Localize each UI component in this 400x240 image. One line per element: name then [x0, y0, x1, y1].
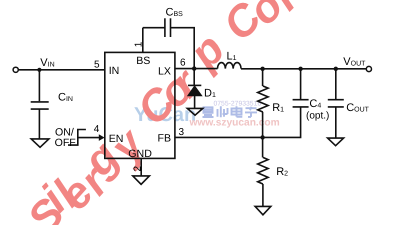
node R1 top junction	[260, 67, 264, 71]
terminal VOUT circle	[366, 66, 371, 71]
ground GND pin	[133, 176, 150, 184]
svg-text:D1: D1	[204, 88, 216, 100]
wire output rail	[241, 68, 366, 70]
wire EN arrow line	[78, 137, 100, 139]
watermark blue chinese characters	[203, 106, 258, 117]
capacitor COUT	[328, 99, 344, 101]
svg-text:VOUT: VOUT	[343, 56, 366, 68]
node FB junction	[260, 135, 264, 139]
ground CIN	[31, 139, 49, 147]
watermark red Silergy Corp	[18, 0, 310, 240]
ground COUT	[328, 138, 344, 146]
watermark phone number	[214, 100, 262, 107]
svg-text:R1: R1	[272, 102, 284, 114]
capacitor C4	[293, 106, 309, 108]
IC U1 body (regulator)	[105, 52, 175, 158]
svg-text:GND: GND	[128, 148, 152, 160]
svg-text:1: 1	[133, 41, 144, 47]
svg-text:VIN: VIN	[40, 57, 54, 69]
svg-text:IN: IN	[109, 65, 120, 77]
svg-text:www.szyucan.com: www.szyucan.com	[189, 118, 280, 129]
ground R2	[255, 206, 271, 214]
svg-text:BS: BS	[136, 55, 150, 67]
diode D1 triangle	[188, 86, 202, 96]
svg-text:CBS: CBS	[166, 7, 184, 19]
EN arrow head	[99, 134, 105, 141]
wire R2 top lead	[262, 137, 264, 157]
wire R1 bottom lead	[262, 112, 264, 137]
node LX junction	[192, 66, 196, 70]
svg-text:3: 3	[179, 127, 185, 138]
wire R1 top lead	[262, 69, 264, 86]
wire D1 bottom lead	[194, 96, 196, 109]
svg-text:(opt.): (opt.)	[306, 111, 329, 122]
watermark www.szyucan.com	[189, 118, 280, 129]
wire D1 top lead	[193, 69, 195, 85]
svg-text:R2: R2	[276, 166, 288, 178]
svg-text:COUT: COUT	[346, 102, 369, 114]
wire VIN input rail	[19, 69, 105, 71]
svg-text:EN: EN	[109, 133, 124, 145]
wire COUT top lead	[335, 69, 337, 100]
watermark blue YuCan logo	[134, 104, 196, 126]
svg-text:LX: LX	[158, 65, 171, 77]
wire LX to node	[175, 68, 218, 70]
capacitor CIN	[31, 101, 49, 103]
wire CIN bottom lead	[38, 109, 40, 139]
wire COUT bottom lead	[335, 107, 337, 138]
svg-text:L1: L1	[227, 50, 237, 62]
inductor L1	[218, 63, 242, 69]
ON/OFF step symbol	[68, 130, 86, 146]
node COUT top junction	[334, 67, 338, 71]
svg-text:C4: C4	[309, 98, 321, 110]
node VIN junction	[37, 68, 41, 72]
resistor R1	[258, 86, 268, 112]
wire CBS left	[143, 27, 165, 29]
resistor R2	[258, 157, 268, 184]
svg-text:0755-27933516: 0755-27933516	[214, 100, 262, 107]
svg-text:5: 5	[94, 60, 100, 71]
wire FB net	[175, 107, 301, 137]
wire GND pin lead	[140, 158, 142, 175]
diode D1 cathode bar	[188, 84, 201, 86]
wire CBS right	[171, 28, 195, 69]
wire BS pin lead	[142, 28, 144, 53]
wire CIN top lead	[38, 70, 40, 101]
node C4 top junction	[298, 67, 302, 71]
circuit drawing	[19, 18, 367, 214]
ground D1	[187, 108, 203, 115]
capacitor CBS	[164, 18, 166, 37]
svg-text:CIN: CIN	[58, 92, 73, 104]
wire R2 bottom lead	[262, 184, 264, 206]
svg-text:6: 6	[180, 58, 186, 69]
svg-text:FB: FB	[158, 133, 172, 145]
wire C4 top lead	[300, 69, 302, 100]
svg-text:OFF: OFF	[55, 137, 77, 149]
svg-text:2: 2	[132, 166, 143, 172]
terminal VIN circle	[13, 67, 18, 72]
svg-text:4: 4	[94, 124, 100, 135]
